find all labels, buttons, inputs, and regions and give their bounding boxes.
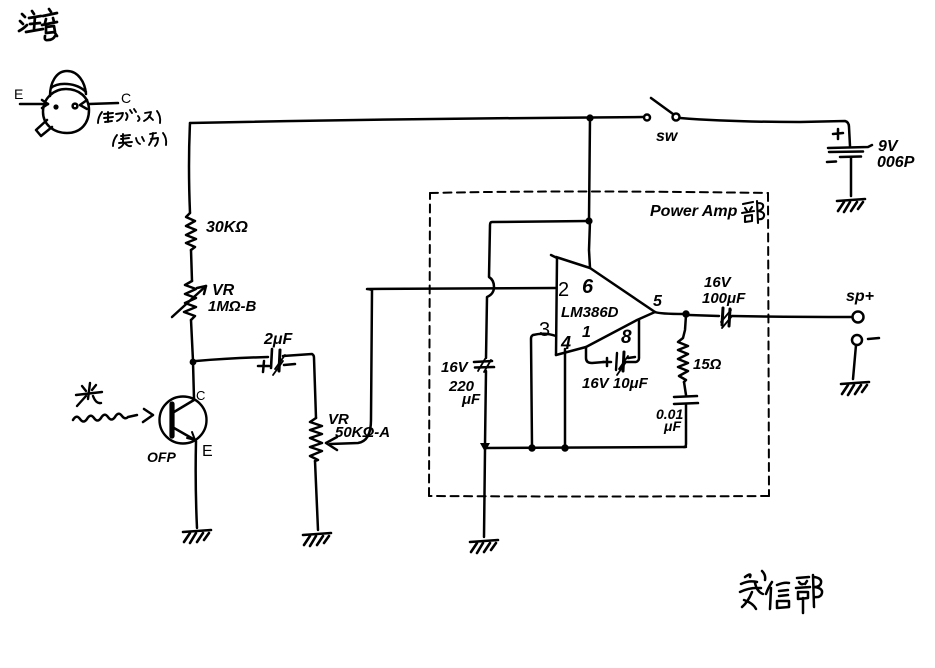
svg-text:C: C xyxy=(196,388,205,403)
phototransistor Q1 OFP xyxy=(147,388,213,465)
svg-text:OFP: OFP xyxy=(147,449,176,465)
wire rail to ground xyxy=(484,450,485,537)
svg-text:9V: 9V xyxy=(878,138,899,155)
resistor 15Ω xyxy=(678,315,722,382)
wire top rail xyxy=(190,117,643,123)
ground VR50K xyxy=(303,533,331,546)
svg-text:C: C xyxy=(121,90,131,106)
capacitor 220μF 16V xyxy=(441,359,494,408)
capacitor 0.01μF xyxy=(656,382,698,447)
wire node to 2uF xyxy=(196,357,268,361)
wire 220uF to rail xyxy=(485,371,486,445)
svg-text:Power Amp: Power Amp xyxy=(650,203,738,220)
svg-text:2: 2 xyxy=(558,279,569,301)
svg-text:1MΩ‐B: 1MΩ‐B xyxy=(208,298,257,315)
svg-text:1: 1 xyxy=(582,324,591,341)
svg-text:VR: VR xyxy=(212,282,235,299)
capacitor 10μF 16V with pin1 pin8 wires xyxy=(582,320,649,392)
svg-text:sp+: sp+ xyxy=(846,288,874,305)
phototransistor package drawing xyxy=(36,71,89,136)
node top rail junction xyxy=(586,114,593,121)
wire emitter to ground xyxy=(196,441,197,528)
svg-text:16V 10μF: 16V 10μF xyxy=(582,375,649,392)
wire left drop from rail xyxy=(189,123,190,213)
svg-text:16V: 16V xyxy=(441,359,470,376)
wire 100uF to sp+ xyxy=(732,316,851,317)
wire bottom rail xyxy=(485,447,686,448)
capacitor 2μF xyxy=(258,331,295,375)
switch SW xyxy=(644,98,680,145)
wire wiper to pin 2 xyxy=(367,288,556,290)
wire 2uF to VR50K xyxy=(283,354,316,418)
wire node to 100uF xyxy=(689,315,719,316)
wire node to collector xyxy=(193,362,194,399)
ground amp xyxy=(470,540,498,553)
annotation (赤マジック) xyxy=(98,109,160,123)
wire junction to 220uF with hop xyxy=(486,221,589,358)
svg-text:μF: μF xyxy=(461,391,481,408)
resistor 30KΩ xyxy=(186,213,248,250)
ground emitter xyxy=(183,530,211,543)
node amp junction xyxy=(585,217,592,224)
svg-text:LM386D: LM386D xyxy=(561,304,619,321)
op-amp U1 LM386D xyxy=(539,255,663,355)
node collector junction xyxy=(190,359,197,366)
wire sp- to ground xyxy=(853,345,856,379)
wire pin 4 xyxy=(564,349,567,446)
wire rail junction drop xyxy=(589,118,590,220)
node rail left arrow junction xyxy=(480,443,490,452)
svg-text:6: 6 xyxy=(582,276,594,298)
potentiometer VR 1MΩ-B xyxy=(172,281,257,320)
wire switch to battery xyxy=(680,118,850,146)
annotation (長い方) xyxy=(113,133,166,148)
terminal sp- xyxy=(852,335,879,345)
wire output pin 5 xyxy=(655,312,684,314)
wire 30K to VR1M xyxy=(191,250,192,281)
svg-text:3: 3 xyxy=(539,319,550,341)
battery 9V 006P xyxy=(827,129,915,196)
node output junction xyxy=(682,310,689,317)
svg-text:5: 5 xyxy=(653,293,663,310)
capacitor 100μF 16V xyxy=(702,274,746,328)
dashed box Power Amp xyxy=(429,192,769,497)
wire VR50K to ground xyxy=(315,461,318,530)
svg-text:16V: 16V xyxy=(704,274,733,291)
svg-text:15Ω: 15Ω xyxy=(693,356,722,373)
svg-text:E: E xyxy=(202,443,213,460)
ground battery xyxy=(837,199,865,212)
wire pin 3 xyxy=(531,334,556,446)
svg-text:E: E xyxy=(14,86,23,102)
svg-text:100μF: 100μF xyxy=(702,290,746,307)
node pin4 rail xyxy=(561,444,568,451)
label Power Amp部 xyxy=(650,201,764,223)
potentiometer VR 50KΩ-A xyxy=(310,290,390,461)
note text 注意 xyxy=(19,9,57,40)
node pin3 rail xyxy=(528,444,535,451)
lead C with arrow and small circle xyxy=(73,90,132,109)
svg-text:μF: μF xyxy=(663,418,681,434)
light wavy arrow xyxy=(73,409,153,422)
ground sp xyxy=(841,382,869,395)
svg-text:006P: 006P xyxy=(877,154,915,171)
svg-text:30KΩ: 30KΩ xyxy=(206,219,248,236)
terminal sp+ xyxy=(846,288,874,323)
wire VR1M to node xyxy=(191,320,193,361)
label 受信部 xyxy=(740,571,822,613)
svg-text:2μF: 2μF xyxy=(263,331,294,348)
wire pin 6 xyxy=(589,221,590,268)
svg-text:sw: sw xyxy=(656,128,679,145)
svg-text:50KΩ‐A: 50KΩ‐A xyxy=(335,424,390,441)
light kanji 光 xyxy=(76,383,102,406)
lead E with arrow and dot xyxy=(14,86,59,110)
svg-text:8: 8 xyxy=(621,327,632,348)
